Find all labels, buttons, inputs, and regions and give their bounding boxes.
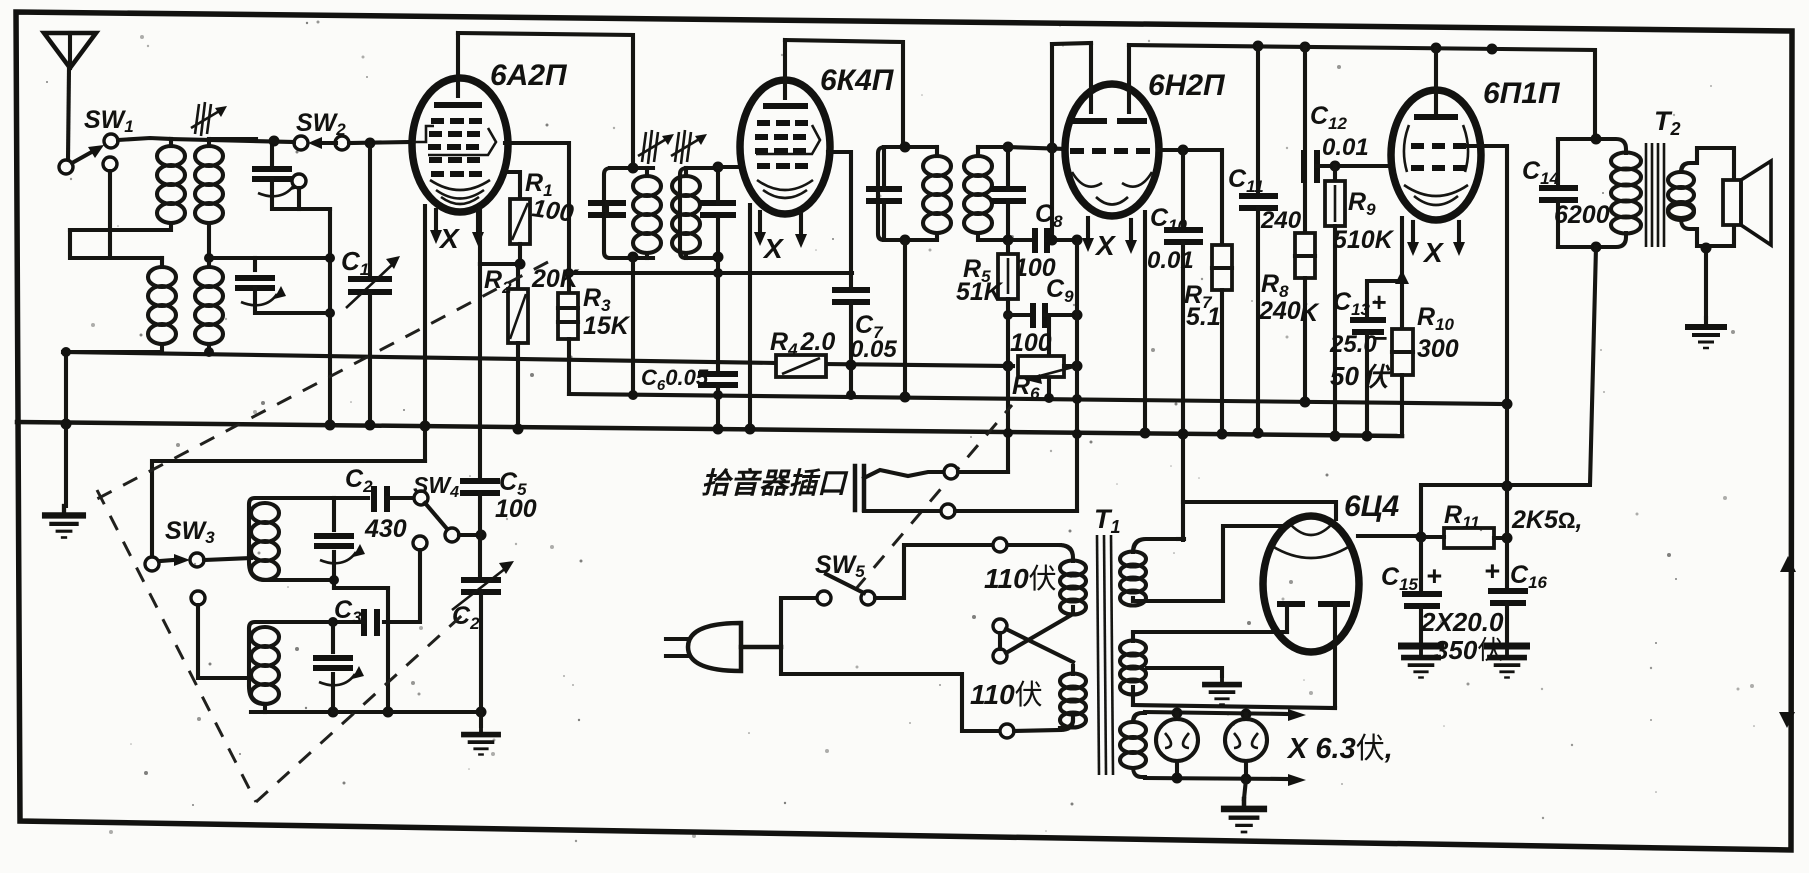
svg-text:X 6.3伏,: X 6.3伏, — [1286, 732, 1393, 765]
resistor R3 (15K) — [558, 293, 578, 394]
resistor R5 51K — [998, 240, 1018, 372]
svg-text:0.01: 0.01 — [1147, 247, 1194, 274]
V4 plate lead — [1434, 48, 1438, 112]
tube V4 6P1P envelope — [1391, 90, 1481, 220]
V1 grid hook right — [428, 128, 496, 155]
V2 grid hook — [756, 125, 820, 154]
svg-text:100: 100 — [495, 495, 537, 523]
wire HV lower to left plate (stepped) — [1133, 526, 1285, 601]
V3 cathode arcs — [1072, 172, 1102, 187]
svg-text:R42.0: R42.0 — [770, 328, 835, 359]
tube V3 6N2P envelope — [1065, 84, 1159, 216]
jack body bars — [853, 466, 858, 510]
wire V1 plate top rail to IFT1 — [458, 33, 633, 168]
chassis ground line from bus — [64, 352, 68, 506]
V1 heater arrows — [430, 210, 442, 244]
wire IFT2 secondary top to V3 grid — [1008, 147, 1066, 149]
capacitor C2 430 (coupling) — [334, 486, 414, 512]
6.3V top line with arrow — [1145, 712, 1290, 714]
oscillator tank 2 (lower) — [249, 622, 364, 718]
T1 crossover X taps — [993, 614, 1073, 663]
V4 heater arrows — [1407, 222, 1419, 256]
wire IFT1 secondary top to V2 grid — [718, 165, 742, 169]
switch SW3 — [145, 553, 204, 571]
resistor R2 (20K) — [508, 264, 528, 435]
capacitor C2 variable (osc tuning) — [452, 561, 514, 718]
jack top contact — [864, 470, 944, 478]
bus L1: AVC line through R4 R6 — [63, 352, 778, 363]
speaker — [1723, 161, 1771, 245]
T2 core lines — [1646, 143, 1664, 247]
wire R11 node down to C16 — [1505, 485, 1509, 591]
svg-text:X: X — [438, 223, 461, 254]
svg-text:350伏: 350伏 — [1434, 635, 1503, 665]
antenna transformer A secondary coil (with core arrow) — [191, 102, 256, 267]
wire node x330 down to bus — [328, 209, 332, 424]
svg-text:50: 50 — [1330, 361, 1359, 391]
tube V2 6K4P envelope — [740, 80, 830, 214]
svg-text:−: − — [1372, 323, 1387, 353]
svg-text:K: K — [1300, 299, 1320, 327]
capacitor C6 0.05 — [698, 273, 738, 435]
output transformer T2 primary — [1558, 134, 1641, 253]
svg-text:C60.05: C60.05 — [641, 365, 709, 394]
pilot lamp 2 — [1225, 714, 1267, 779]
jack bottom contact — [864, 509, 941, 513]
V2 anode bar — [763, 103, 808, 109]
svg-text:6К4П: 6К4П — [820, 64, 895, 97]
V3 plate loop over to x1052 — [1052, 43, 1091, 44]
V3 cathode lead down to bus — [1143, 212, 1147, 433]
ganging dashed line V left — [97, 490, 256, 802]
svg-text:6Н2П: 6Н2П — [1148, 69, 1226, 102]
IF transformer 1, primary tank — [588, 163, 661, 401]
svg-text:510K: 510K — [1333, 226, 1395, 254]
svg-text:110伏: 110伏 — [984, 563, 1057, 594]
svg-text:100: 100 — [530, 194, 575, 228]
pilot lamp 1 — [1156, 713, 1198, 778]
switch SW5 — [817, 574, 875, 605]
capacitor C8 (100) — [1008, 228, 1083, 253]
IFT1 adjustable cores — [638, 130, 674, 164]
svg-text:110伏: 110伏 — [970, 679, 1043, 710]
V3 plate leads (two) — [1089, 43, 1093, 112]
filament mid tap to ground — [1147, 668, 1222, 676]
V5 cathode lead to R11 — [1358, 534, 1421, 538]
wire SW5 to T1 primary top — [875, 545, 1060, 598]
wire x1052 from plate loop down to C8 — [1050, 44, 1054, 240]
svg-text:15K: 15K — [583, 312, 631, 340]
wire IFT1 secondary bottom down through C6 — [716, 258, 720, 273]
tube V1 6A2P envelope — [412, 78, 508, 212]
capacitor C5 100 — [460, 481, 500, 578]
V1 grid dash rows — [428, 121, 482, 174]
V1 cathode arcs — [430, 180, 490, 190]
V2 grid dash rows — [755, 123, 808, 166]
IF transformer 2, primary tank — [866, 142, 951, 403]
ganging dashed line SW5 — [855, 405, 1012, 590]
tube V5 6C4 rectifier envelope — [1263, 516, 1359, 652]
V4 cathode arcs — [1404, 185, 1468, 196]
speaker ground — [1704, 248, 1708, 318]
wire SW1 pole2 down — [108, 171, 112, 258]
svg-text:430: 430 — [364, 515, 407, 543]
plug wire down branch to T1 primary bottom — [781, 647, 1000, 731]
wire HV top to rectifier plate (stepped) — [1183, 502, 1336, 519]
antenna transformer B (lower): primary coil — [66, 230, 176, 352]
ganging dashed line V right — [256, 608, 470, 802]
heater ground — [1244, 779, 1246, 799]
wire V1 cathode down — [478, 208, 482, 264]
V4 cathode down to C13/R10 node — [1367, 218, 1402, 317]
wire y258 (band section link) — [209, 256, 330, 260]
resistor R9 510K — [1325, 166, 1345, 442]
svg-text:+: + — [1371, 287, 1386, 317]
T2 secondary — [1668, 148, 1734, 246]
svg-text:6200: 6200 — [1554, 201, 1610, 229]
resistor R1 (100) — [504, 172, 530, 270]
osc bottom rail — [333, 710, 481, 714]
capacitor C3 — [328, 609, 377, 636]
T1 6.3V winding — [1120, 713, 1146, 777]
wire V2 right to C7 — [828, 152, 851, 287]
capacitor C12 0.01 — [1304, 150, 1391, 183]
V3 grid dash row — [1070, 148, 1150, 154]
wire V2 cathode down to bus — [748, 205, 752, 429]
trimmer cap lower — [235, 258, 330, 313]
wire osc feed from V1 heater line — [152, 461, 425, 557]
capacitor C1 (main tuning, variable) — [346, 143, 400, 431]
B+ rail top right — [1129, 45, 1595, 139]
plug wire up to SW5 — [781, 598, 817, 647]
svg-text:6А2П: 6А2П — [490, 59, 568, 92]
V5 plate bars — [1277, 604, 1350, 708]
wire SW2 to V1 grid — [349, 142, 412, 143]
svg-text:51K: 51K — [956, 278, 1004, 306]
wire SW2 left lead — [171, 139, 294, 142]
T1 primary lower winding — [1060, 666, 1086, 728]
V4 plate side arcs — [1404, 125, 1409, 172]
osc ground — [479, 712, 483, 726]
T1 HV secondary winding — [1120, 539, 1178, 606]
wire tank1 bottom to bottom rail — [386, 588, 390, 712]
ganging dashed line C1 — [95, 262, 548, 500]
V1 grid hook left — [412, 126, 434, 142]
svg-text:+: + — [1484, 556, 1500, 586]
capacitor C10 0.01 — [1164, 150, 1203, 540]
resistor R10 300 — [1392, 329, 1413, 436]
wire SW3 to osc coil 1 — [204, 558, 251, 560]
V2 plate lead and rail to IFT2 — [783, 40, 787, 98]
V2 heater arrows — [754, 212, 766, 246]
svg-text:100: 100 — [1010, 329, 1052, 357]
oscillator tank 1 (upper) — [249, 498, 365, 588]
switch SW2 — [294, 136, 349, 150]
resistor R7 5.1 — [1212, 245, 1232, 440]
antenna transformer A primary coil — [70, 139, 185, 230]
svg-text:伏: 伏 — [1362, 362, 1391, 392]
svg-text:0.05: 0.05 — [850, 336, 897, 363]
wire x1077 vertical (C8/C9/R6 junction to pickup) — [1075, 240, 1079, 511]
V4 screen wire right and down (x1507) — [1466, 146, 1507, 485]
svg-text:5.1: 5.1 — [1186, 303, 1221, 331]
V4 anode bar — [1414, 114, 1458, 120]
open terminal circle right of trimmer — [292, 174, 306, 188]
capacitor C14 6200 — [1539, 139, 1578, 247]
border frame arrow marks — [1780, 556, 1796, 572]
antenna transformer B secondary coil — [195, 267, 223, 357]
wire V1 heater down to oscillator feed — [423, 206, 427, 461]
svg-text:6Ц4: 6Ц4 — [1344, 490, 1400, 523]
6.3V bottom line with arrow — [1145, 778, 1290, 779]
capacitor C9 (100) — [1008, 303, 1083, 403]
wire V1 right grid to R3 line — [505, 143, 569, 293]
capacitor C7 0.05 — [832, 290, 870, 400]
resistor R8 240K — [1295, 47, 1315, 408]
switch SW1 — [59, 134, 118, 174]
V3 anode bars — [1072, 118, 1107, 124]
V2 cathode arcs — [757, 180, 813, 190]
wire AVC return y273 — [569, 271, 852, 275]
resistor R6 (volume, 100) — [1018, 356, 1083, 384]
svg-text:240: 240 — [1258, 297, 1301, 325]
V3 heater arrows — [1082, 218, 1094, 252]
antenna — [44, 33, 96, 160]
wire SW1 to antenna coil top — [118, 138, 171, 140]
svg-text:300: 300 — [1417, 335, 1459, 363]
T1 primary upper winding — [1060, 545, 1086, 615]
T1 core lines — [1097, 535, 1113, 775]
capacitor C11 240 — [1239, 46, 1278, 439]
capacitor C15 electrolytic — [1398, 537, 1444, 678]
V5 cathode dome arcs — [1272, 546, 1350, 558]
V1 plate lead top — [456, 33, 460, 96]
IF transformer 2, secondary tank — [964, 142, 1026, 246]
svg-text:20K: 20K — [531, 265, 580, 293]
T1 filament winding (rectifier) — [1120, 632, 1335, 708]
IF transformer 1, secondary tank — [672, 162, 736, 263]
svg-text:2X20.0: 2X20.0 — [1420, 607, 1504, 637]
svg-text:拾音器插口: 拾音器插口 — [701, 467, 849, 500]
mains plug — [666, 623, 781, 671]
svg-text:X: X — [1094, 230, 1117, 261]
ground (chassis, left) — [42, 506, 86, 538]
switch SW4 — [414, 491, 487, 542]
wire T2 primary bottom down to filter — [1421, 247, 1596, 537]
capacitor C16 electrolytic — [1484, 591, 1530, 678]
V4 grid dash rows — [1411, 146, 1466, 168]
svg-text:25.0: 25.0 — [1329, 331, 1377, 358]
svg-text:2K5Ω,: 2K5Ω, — [1511, 506, 1582, 534]
trimmer cap (upper, on line x272) — [252, 136, 330, 210]
V3 grid wire right to R7 — [1158, 150, 1222, 245]
open terminal + wire to C3 — [413, 536, 427, 550]
main ground bus (long horizontal) — [17, 422, 1402, 436]
svg-text:+: + — [1426, 561, 1442, 591]
open terminal left (osc) — [191, 591, 205, 605]
resistor R11 — [1421, 528, 1513, 548]
svg-text:6П1П: 6П1П — [1483, 77, 1561, 110]
wire x1008 down to pickup jack top contact — [1006, 366, 1010, 472]
svg-text:X: X — [762, 233, 785, 264]
V1 anode bar — [434, 102, 482, 108]
capacitor C13 electrolytic 25.0/50V — [1350, 320, 1386, 442]
resistor R4 2.0 — [776, 355, 826, 377]
bus y394 line: from R3 to right — [569, 394, 1505, 404]
svg-text:0.01: 0.01 — [1322, 134, 1369, 161]
svg-text:X: X — [1422, 237, 1445, 268]
svg-text:240: 240 — [1260, 207, 1302, 234]
